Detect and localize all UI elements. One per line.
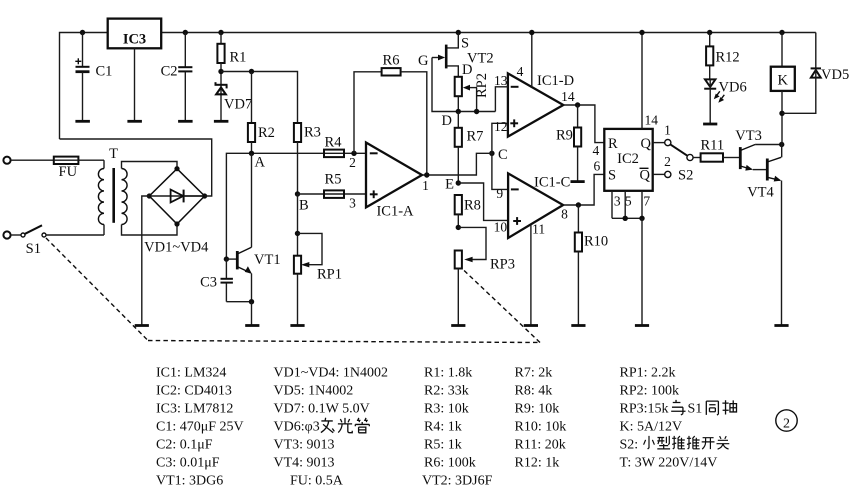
svg-text:S2:: S2:	[620, 438, 639, 453]
wire R1 junction to R2/R3 branches	[221, 72, 298, 124]
transformer T	[98, 146, 177, 235]
svg-text:6: 6	[594, 159, 601, 174]
wire VT2 gate to node D row	[432, 58, 495, 112]
resistor R3	[294, 123, 321, 194]
wire pin11 to ground	[524, 225, 538, 326]
potentiometer RP2	[455, 73, 490, 112]
svg-text:T: 3W 220V/14V: T: 3W 220V/14V	[620, 456, 718, 471]
svg-text:RP1: 2.2k: RP1: 2.2k	[620, 366, 676, 381]
svg-text:VT1: VT1	[254, 252, 281, 268]
svg-text:R11: 20k: R11: 20k	[515, 438, 566, 453]
svg-text:B: B	[299, 198, 309, 214]
svg-text:VT3: VT3	[735, 128, 762, 144]
transistor VT1	[224, 153, 281, 301]
resistor R12	[706, 30, 740, 80]
svg-text:S: S	[461, 36, 469, 52]
resistor R9	[556, 105, 585, 182]
svg-text:3: 3	[614, 194, 621, 209]
svg-text:R11: R11	[700, 138, 724, 154]
wire IC2 pin14	[639, 30, 658, 129]
parts list column 4	[515, 366, 567, 471]
node R1/VD7 junction	[218, 69, 223, 74]
svg-text:VT4: VT4	[747, 185, 774, 201]
wire top rail left of IC3	[60, 33, 108, 140]
svg-text:1: 1	[664, 123, 671, 138]
svg-text:IC2: IC2	[617, 151, 639, 167]
cjk glyph guan of fa-guang-guan	[355, 418, 369, 433]
svg-text:VD1~VD4: VD1~VD4	[144, 240, 209, 256]
op-amp IC1-A	[349, 143, 429, 220]
node K bottom	[779, 111, 784, 116]
svg-text:R12: R12	[716, 50, 740, 66]
resistor R4	[324, 135, 344, 158]
op-amp IC1-D	[494, 64, 575, 137]
cjk glyph xing of switch name	[657, 436, 670, 449]
svg-text:R4: 1k: R4: 1k	[424, 420, 462, 435]
svg-text:R1: 1.8k: R1: 1.8k	[424, 366, 472, 381]
svg-text:Q: Q	[640, 168, 651, 184]
svg-text:R10: 10k: R10: 10k	[515, 420, 567, 435]
resistor R7	[455, 112, 484, 184]
svg-text:1: 1	[422, 178, 429, 193]
node collectors	[779, 142, 784, 158]
svg-text:RP2: RP2	[474, 73, 490, 98]
svg-text:C: C	[498, 147, 508, 163]
svg-text:4: 4	[593, 143, 600, 158]
parts list column 1	[156, 366, 244, 489]
IC3 regulator U-IC3	[108, 19, 162, 122]
switch S2	[653, 123, 694, 184]
svg-text:R8: 4k: R8: 4k	[515, 384, 553, 399]
node VT1 emitter / ground	[245, 299, 259, 326]
capacitor C2	[161, 30, 193, 122]
svg-text:7: 7	[643, 194, 650, 209]
svg-text:R12: 1k: R12: 1k	[515, 456, 560, 471]
node B	[295, 191, 309, 213]
svg-text:R1: R1	[230, 50, 247, 66]
svg-text:R5: 1k: R5: 1k	[424, 438, 462, 453]
parts list column 5	[620, 366, 718, 471]
svg-text:14: 14	[561, 89, 575, 104]
svg-text:2: 2	[664, 154, 671, 169]
capacitor C1	[75, 30, 112, 122]
resistor R11	[693, 138, 739, 162]
cjk glyph kai of switch name	[702, 438, 715, 449]
cjk glyph tong of tong-zhou	[706, 401, 718, 415]
svg-text:S1: S1	[26, 241, 41, 257]
svg-text:9: 9	[496, 186, 503, 201]
svg-text:12: 12	[494, 119, 508, 134]
svg-text:D: D	[462, 62, 472, 78]
node R9 top	[575, 102, 580, 107]
resistor R8	[455, 195, 481, 227]
resistor R2	[248, 123, 275, 153]
transistor VT3	[735, 128, 781, 171]
node E	[445, 177, 461, 193]
svg-text:VD7: 0.1W 5.0V: VD7: 0.1W 5.0V	[274, 402, 370, 417]
svg-text:R7: R7	[467, 129, 484, 145]
svg-text:K: K	[778, 73, 789, 89]
svg-text:8: 8	[561, 207, 568, 222]
potentiometer RP3	[451, 225, 515, 326]
op-amp IC1-C	[494, 173, 571, 238]
cjk glyph tui1 of switch name	[672, 436, 685, 449]
cjk glyph yu after RP3:15k	[671, 400, 685, 415]
svg-text:C1: 470μF 25V: C1: 470μF 25V	[156, 420, 244, 435]
svg-text:RP3:15k: RP3:15k	[620, 402, 669, 417]
relay K	[771, 30, 795, 145]
svg-text:2: 2	[783, 417, 790, 432]
svg-text:R10: R10	[584, 234, 608, 250]
node D	[442, 109, 480, 129]
svg-text:R7: 2k: R7: 2k	[515, 366, 553, 381]
cjk glyph zhou of tong-zhou	[722, 400, 736, 414]
svg-text:E: E	[445, 177, 454, 193]
svg-text:2: 2	[349, 155, 356, 170]
svg-text:RP1: RP1	[317, 267, 342, 283]
svg-text:R6: 100k: R6: 100k	[424, 456, 476, 471]
zener diode VD7	[214, 82, 252, 121]
wire R2 drop	[251, 72, 253, 124]
svg-text:R6: R6	[383, 53, 400, 69]
svg-text:IC2: CD4013: IC2: CD4013	[156, 384, 232, 399]
svg-text:R9: R9	[556, 128, 573, 144]
resistor R6 feedback	[354, 53, 427, 176]
svg-text:4: 4	[517, 64, 524, 79]
led VD6	[703, 79, 747, 124]
node R2 top	[249, 69, 254, 74]
svg-text:RP2: 100k: RP2: 100k	[620, 384, 680, 399]
wire node A row	[226, 153, 366, 259]
svg-text:VD5: VD5	[821, 67, 849, 83]
svg-text:G: G	[418, 53, 429, 69]
circled figure number 2	[776, 410, 797, 432]
svg-text:10: 10	[494, 220, 508, 235]
resistor R1	[217, 30, 246, 84]
svg-text:11: 11	[532, 222, 545, 237]
node R10 top	[576, 202, 581, 207]
svg-text:VD6:φ3: VD6:φ3	[274, 420, 320, 435]
svg-text:S: S	[608, 168, 616, 184]
node pin2 junction	[351, 151, 356, 156]
svg-text:FU: FU	[59, 164, 78, 180]
svg-text:VT4: 9013: VT4: 9013	[274, 456, 335, 471]
wire C to pin12	[489, 123, 508, 153]
svg-text:D: D	[442, 113, 452, 129]
svg-text:IC1-A: IC1-A	[376, 204, 414, 220]
capacitor C3	[200, 259, 251, 302]
potentiometer RP1	[290, 194, 342, 326]
svg-text:C1: C1	[96, 64, 113, 80]
resistor R5	[324, 172, 344, 198]
wire pin4 power	[529, 30, 534, 87]
svg-text:R3: R3	[304, 125, 321, 141]
svg-text:IC3: IC3	[123, 32, 146, 48]
svg-text:C3: 0.01μF: C3: 0.01μF	[156, 456, 220, 471]
wire bridge plus to IC3 input rail	[60, 139, 212, 196]
svg-text:VD1~VD4: 1N4002: VD1~VD4: 1N4002	[274, 366, 389, 381]
svg-text:VT1: 3DG6: VT1: 3DG6	[156, 474, 223, 489]
wire pin13 to node D row	[495, 87, 508, 112]
cjk glyph xiao of switch name	[644, 436, 655, 449]
switch S1	[3, 225, 104, 257]
bridge rectifier VD1~VD4	[144, 166, 209, 255]
svg-text:IC3: LM7812: IC3: LM7812	[156, 402, 233, 417]
svg-text:R: R	[608, 136, 618, 152]
svg-text:VD7: VD7	[224, 97, 252, 113]
cjk glyph tui2 of switch name	[687, 436, 700, 449]
dashed coupling S1 to RP3	[46, 238, 540, 343]
fuse FU	[54, 157, 104, 180]
svg-text:IC1-D: IC1-D	[537, 73, 574, 89]
cjk glyph guan1 of switch name	[717, 436, 730, 449]
svg-text:FU: 0.5A: FU: 0.5A	[290, 474, 344, 489]
cjk glyph fa of fa-guang-guan	[321, 418, 334, 433]
svg-text:A: A	[255, 155, 266, 171]
svg-text:VT2: 3DJ6F: VT2: 3DJ6F	[422, 474, 493, 489]
svg-text:T: T	[109, 146, 118, 162]
resistor R10	[571, 205, 608, 326]
svg-text:R4: R4	[325, 135, 343, 151]
svg-text:14: 14	[644, 113, 658, 128]
svg-text:C2: 0.1μF: C2: 0.1μF	[156, 438, 213, 453]
wire top rail right of IC3	[161, 32, 816, 34]
svg-text:C3: C3	[200, 275, 217, 291]
svg-text:RP3: RP3	[490, 257, 515, 273]
svg-text:IC1-C: IC1-C	[534, 175, 570, 191]
svg-text:VD6: VD6	[719, 80, 747, 96]
svg-text:R9: 10k: R9: 10k	[515, 402, 560, 417]
node output pin1	[424, 172, 429, 177]
svg-text:13: 13	[494, 73, 508, 88]
diode VD5	[782, 33, 849, 114]
parts list column 2	[274, 366, 389, 489]
svg-text:K: 5A/12V: K: 5A/12V	[620, 420, 683, 435]
svg-text:R8: R8	[464, 198, 481, 214]
svg-text:S2: S2	[678, 168, 693, 184]
terminal input top	[3, 157, 53, 164]
svg-text:R3: 10k: R3: 10k	[424, 402, 469, 417]
svg-text:VD5: 1N4002: VD5: 1N4002	[274, 384, 354, 399]
svg-text:R5: R5	[325, 172, 342, 188]
svg-text:R2: R2	[258, 125, 275, 141]
svg-text:5: 5	[625, 194, 632, 209]
svg-text:C2: C2	[161, 64, 178, 80]
svg-text:VT3: 9013: VT3: 9013	[274, 438, 335, 453]
svg-text:R2: 33k: R2: 33k	[424, 384, 469, 399]
svg-text:3: 3	[349, 196, 356, 211]
wire IC1-D output to IC2 R	[563, 105, 604, 143]
fet VT2	[418, 30, 494, 78]
wire IC1-C output to IC2 S	[563, 174, 604, 205]
flip-flop IC2	[593, 129, 653, 191]
wire IC1-A output row	[422, 153, 489, 175]
wire IC2 pins 3 5 7	[612, 191, 650, 326]
parts list column 3	[422, 366, 493, 489]
wire B row to pin3	[298, 193, 367, 195]
wire C to pin9	[492, 153, 508, 189]
svg-text:S1: S1	[688, 402, 703, 417]
cjk glyph guang of fa-guang-guan	[338, 418, 352, 433]
wire bridge minus to ground	[135, 196, 150, 326]
transistor VT4	[747, 157, 788, 325]
svg-text:IC1: LM324: IC1: LM324	[156, 366, 226, 381]
node A	[249, 151, 266, 171]
node C	[489, 147, 507, 163]
svg-text:Q: Q	[641, 136, 652, 152]
wire E to pin10	[458, 183, 508, 220]
